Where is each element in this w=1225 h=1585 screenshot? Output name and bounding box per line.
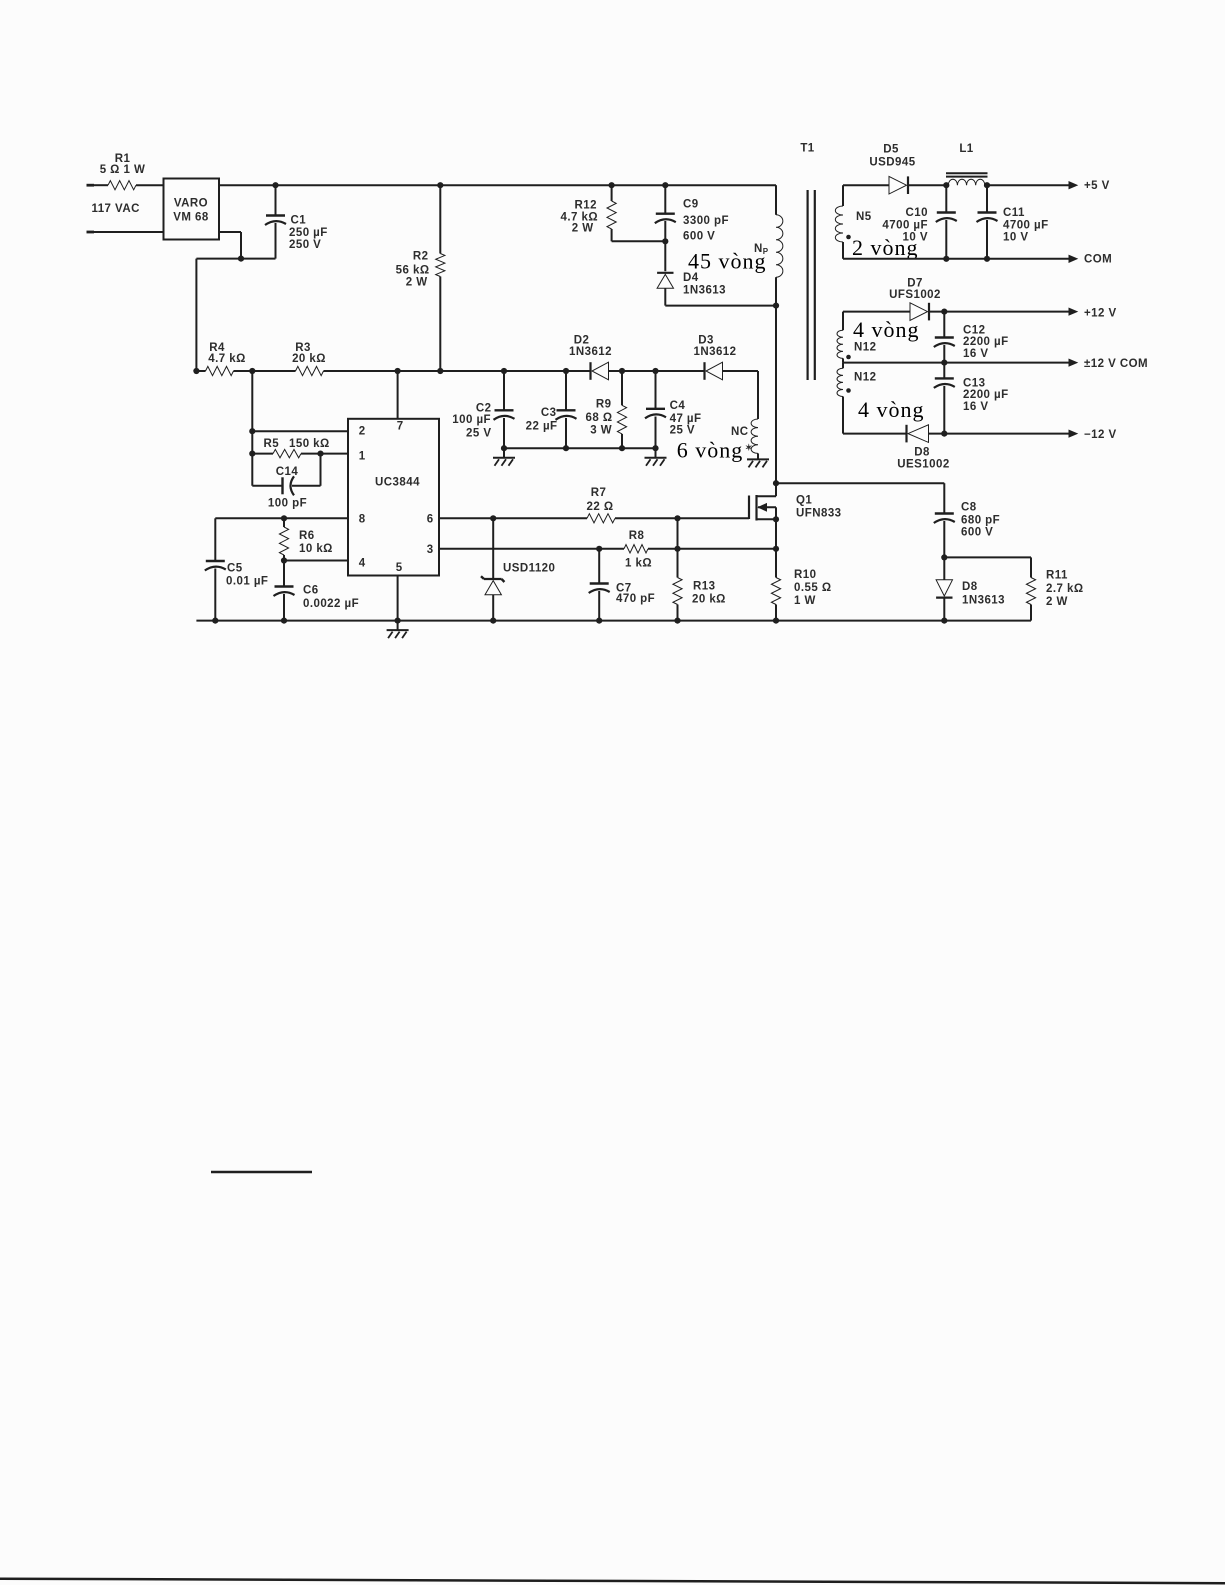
resistor R5 (252, 438, 348, 458)
svg-text:600 V: 600 V (961, 527, 993, 539)
svg-text:N12: N12 (854, 342, 876, 354)
label 117 VAC (92, 203, 140, 215)
wire: pin 8 Vref (215, 515, 348, 521)
svg-text:250 µF: 250 µF (289, 227, 328, 239)
resistor R7 (586, 487, 615, 523)
label 45 vong (688, 249, 767, 274)
svg-text:D5: D5 (883, 144, 899, 156)
diode D8 UES1002 (843, 425, 950, 471)
resistor R10 (771, 549, 831, 621)
capacitor C14 (252, 454, 320, 510)
svg-text:R9: R9 (596, 399, 612, 411)
svg-text:0.55 Ω: 0.55 Ω (794, 582, 832, 594)
svg-text:600 V: 600 V (683, 231, 715, 243)
resistor R6 (279, 518, 332, 560)
wire: D5 to L1 (908, 182, 949, 188)
svg-text:250 V: 250 V (289, 239, 321, 251)
svg-text:4.7 kΩ: 4.7 kΩ (208, 353, 246, 365)
svg-text:2.7 kΩ: 2.7 kΩ (1046, 583, 1084, 595)
transformer T1 secondary winding N5 (835, 185, 871, 259)
svg-text:10 kΩ: 10 kΩ (299, 543, 333, 555)
svg-text:3300 pF: 3300 pF (683, 215, 729, 227)
svg-text:1N3612: 1N3612 (569, 346, 612, 358)
wire: pin 6 gate drive (439, 515, 749, 521)
svg-text:10 V: 10 V (903, 232, 928, 244)
svg-text:680 pF: 680 pF (961, 515, 1000, 527)
svg-text:C9: C9 (683, 199, 699, 211)
svg-text:4 vòng: 4 vòng (858, 397, 925, 422)
svg-text:VM 68: VM 68 (173, 212, 209, 224)
svg-text:2 W: 2 W (572, 223, 594, 235)
diode D4 1N3613 (657, 272, 726, 306)
svg-text:7: 7 (397, 421, 403, 433)
svg-text:2 W: 2 W (406, 277, 428, 289)
transformer T1 secondary winding N12 upper (837, 312, 876, 363)
diode D5 USD945 (869, 144, 915, 195)
transformer T1 secondary winding N12 lower (837, 363, 876, 434)
wire: pin 4 RT/CT (281, 557, 348, 563)
svg-text:22 Ω: 22 Ω (586, 501, 613, 513)
resistor R4 (206, 342, 246, 376)
svg-text:R6: R6 (299, 530, 315, 542)
wire: pin 5 ground (397, 576, 399, 621)
resistor R3 (292, 342, 326, 376)
svg-text:UFN833: UFN833 (796, 508, 842, 520)
svg-text:C6: C6 (303, 585, 319, 597)
wire: pin 7 Vcc (397, 371, 399, 419)
ground at C2 (493, 448, 515, 466)
svg-text:C8: C8 (961, 502, 977, 514)
wire: +5V output (985, 180, 1110, 192)
node: N12 upper phase dot (846, 355, 851, 360)
wire: N5 to D5 (843, 184, 889, 186)
wire: primary bottom to Q1 drain (775, 306, 777, 484)
svg-text:10 V: 10 V (1003, 232, 1028, 244)
resistor R11 (944, 557, 1083, 620)
wire: top positive rail (219, 182, 776, 188)
ground at pin 5 (387, 621, 409, 639)
svg-text:−12 V: −12 V (1084, 429, 1117, 441)
svg-text:D7: D7 (907, 277, 923, 289)
svg-text:C14: C14 (276, 466, 299, 478)
svg-text:R5: R5 (264, 438, 280, 450)
resistor R1 (94, 153, 164, 190)
capacitor C7 (589, 549, 655, 621)
svg-text:R13: R13 (693, 581, 715, 593)
svg-text:UFS1002: UFS1002 (889, 289, 941, 301)
node: AC input terminal lower tick (87, 231, 95, 234)
svg-text:✶: ✶ (745, 443, 753, 453)
resistor R13 (673, 518, 726, 620)
svg-text:USD945: USD945 (869, 157, 915, 169)
svg-text:C2: C2 (476, 402, 492, 414)
node: AC input terminal upper tick (87, 184, 95, 187)
svg-text:VARO: VARO (174, 198, 208, 210)
svg-text:N12: N12 (854, 372, 876, 384)
svg-text:C11: C11 (1003, 207, 1025, 219)
label 6 vong (677, 438, 753, 463)
svg-text:R8: R8 (629, 530, 645, 542)
svg-text:+5 V: +5 V (1084, 180, 1110, 192)
svg-text:22 µF: 22 µF (526, 421, 558, 433)
svg-text:25 V: 25 V (670, 425, 695, 437)
svg-text:1N3613: 1N3613 (683, 285, 726, 297)
wire: aux filter ground rail (501, 445, 659, 451)
page rule: short underline (211, 1171, 312, 1174)
wire: +/-12V COM center tap (843, 358, 1148, 370)
svg-text:C4: C4 (670, 400, 686, 412)
svg-text:100 µF: 100 µF (452, 414, 491, 426)
resistor R8 (624, 530, 652, 570)
svg-text:R12: R12 (575, 200, 597, 212)
diode USD1120 gate clamp (481, 518, 555, 620)
capacitor C2 (452, 371, 514, 448)
node: N5 phase dot (846, 235, 851, 240)
svg-text:C10: C10 (906, 207, 928, 219)
svg-text:16 V: 16 V (963, 348, 988, 360)
capacitor C3 (526, 371, 577, 448)
capacitor C13 (934, 363, 1009, 434)
diode D2 1N3612 (569, 335, 612, 380)
label 4 vong upper (853, 317, 920, 342)
capacitor C9 (655, 185, 729, 271)
svg-text:C13: C13 (963, 378, 985, 390)
svg-text:L1: L1 (959, 143, 973, 155)
svg-text:UES1002: UES1002 (897, 459, 949, 471)
svg-text:1: 1 (359, 451, 366, 463)
svg-text:D2: D2 (574, 335, 590, 347)
svg-text:C12: C12 (963, 325, 985, 337)
svg-text:D8: D8 (962, 581, 978, 593)
svg-text:20 kΩ: 20 kΩ (292, 353, 326, 365)
svg-text:0.0022 µF: 0.0022 µF (303, 598, 359, 610)
svg-text:47 µF: 47 µF (670, 413, 702, 425)
svg-text:UC3844: UC3844 (375, 477, 420, 489)
capacitor C10 (882, 185, 956, 259)
svg-text:C5: C5 (227, 563, 243, 575)
svg-text:5 Ω 1 W: 5 Ω 1 W (100, 164, 146, 176)
svg-text:56 kΩ: 56 kΩ (396, 265, 430, 277)
capacitor C1 (265, 185, 328, 258)
svg-text:3: 3 (427, 544, 433, 556)
ground at NC winding (747, 453, 769, 467)
diode D3 1N3612 (694, 335, 737, 380)
svg-text:2200 µF: 2200 µF (963, 336, 1009, 348)
wire: pin 2 voltage feedback (249, 371, 348, 486)
svg-text:NC: NC (731, 426, 749, 438)
wire: lower AC input to bridge (94, 231, 164, 233)
svg-text:Q1: Q1 (796, 495, 812, 507)
wire: snubber return to primary bottom (665, 303, 779, 309)
svg-text:T1: T1 (800, 143, 814, 155)
diode D8 1N3613 snubber (936, 557, 1005, 620)
svg-text:R7: R7 (591, 487, 607, 499)
transistor Q1 UFN833 MOSFET (749, 483, 842, 549)
resistor R9 (585, 371, 626, 448)
svg-text:D3: D3 (698, 335, 714, 347)
capacitor C4 (645, 371, 701, 448)
wire: feedback rail (R4/R3 line) (193, 368, 758, 374)
label 4 vong lower (858, 397, 925, 422)
svg-text:D4: D4 (683, 272, 699, 284)
svg-text:C1: C1 (291, 215, 307, 227)
node: Q1 drain junction (773, 480, 944, 486)
inductor L1 (946, 143, 988, 185)
svg-text:16 V: 16 V (963, 401, 988, 413)
capacitor C11 (977, 182, 1049, 259)
svg-text:2 W: 2 W (1046, 596, 1068, 608)
capacitor C5 (205, 518, 269, 620)
svg-text:4: 4 (359, 558, 366, 570)
svg-text:COM: COM (1084, 254, 1112, 266)
svg-text:8: 8 (359, 514, 366, 526)
bridge rectifier VARO VM 68 (164, 179, 220, 240)
diode D7 UFS1002 (843, 277, 941, 320)
svg-text:C3: C3 (541, 407, 557, 419)
label 2 vong (852, 235, 919, 260)
wire: primary ground rail (196, 618, 1031, 624)
svg-text:1 W: 1 W (794, 595, 816, 607)
svg-text:3 W: 3 W (590, 425, 612, 437)
svg-text:D8: D8 (914, 447, 930, 459)
svg-text:117 VAC: 117 VAC (92, 203, 140, 215)
capacitor C6 (274, 561, 360, 621)
capacitor C12 (934, 312, 1009, 363)
wire: pin 3 current sense (439, 546, 779, 552)
transformer T1 auxiliary winding NC (731, 371, 758, 453)
node: N12 lower phase dot (846, 388, 851, 393)
svg-text:6: 6 (427, 514, 433, 526)
transformer T1 primary winding Np (754, 185, 783, 305)
svg-text:0.01 µF: 0.01 µF (226, 576, 268, 588)
svg-text:5: 5 (396, 562, 403, 574)
svg-text:1N3612: 1N3612 (694, 346, 737, 358)
page rule: bottom border (0, 1579, 1225, 1584)
svg-text:4700 µF: 4700 µF (882, 220, 928, 232)
wire: COM return rail (843, 254, 1112, 266)
svg-text:1 kΩ: 1 kΩ (625, 558, 652, 570)
svg-text:150 kΩ: 150 kΩ (289, 438, 330, 450)
svg-text:25 V: 25 V (466, 428, 491, 440)
svg-text:USD1120: USD1120 (503, 563, 555, 575)
ground at C4 (645, 448, 667, 466)
svg-text:N5: N5 (856, 211, 872, 223)
svg-text:100 pF: 100 pF (268, 498, 307, 510)
svg-text:6 vòng: 6 vòng (677, 438, 744, 463)
transformer T1 core (800, 143, 814, 381)
svg-text:2200 µF: 2200 µF (963, 389, 1009, 401)
svg-text:68 Ω: 68 Ω (585, 412, 612, 424)
resistor R2 (396, 185, 445, 371)
wire: bridge negative return (196, 232, 275, 371)
svg-text:20 kΩ: 20 kΩ (692, 594, 726, 606)
svg-text:4700 µF: 4700 µF (1003, 220, 1049, 232)
svg-text:±12 V COM: ±12 V COM (1084, 358, 1148, 370)
wire: -12V output (929, 429, 1117, 441)
svg-text:1N3613: 1N3613 (962, 595, 1005, 607)
svg-text:R2: R2 (413, 251, 429, 263)
capacitor C8 (934, 483, 1000, 560)
svg-text:2: 2 (359, 426, 365, 438)
op-amp U1 UC3844 controller (348, 419, 439, 576)
resistor R12 (561, 185, 666, 241)
svg-text:R10: R10 (794, 569, 816, 581)
wire: +12V output (930, 308, 1117, 320)
svg-text:470 pF: 470 pF (616, 593, 655, 605)
svg-text:R11: R11 (1046, 570, 1068, 582)
svg-text:+12 V: +12 V (1084, 308, 1117, 320)
